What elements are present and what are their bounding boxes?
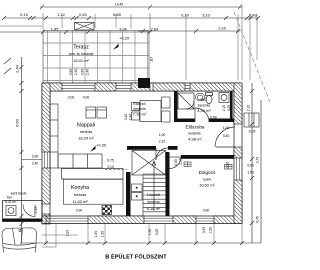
svg-text:10,52 m²: 10,52 m² (199, 183, 215, 188)
svg-text:2,10: 2,10 (107, 165, 114, 169)
svg-text:0,00: 0,00 (68, 96, 75, 100)
svg-text:Lépcső: Lépcső (147, 192, 161, 197)
svg-text:2,10: 2,10 (218, 26, 227, 31)
svg-text:6,65: 6,65 (113, 12, 122, 17)
eloszoba door arc (170, 157, 182, 169)
svg-text:1,80: 1,80 (66, 230, 70, 237)
bath door arc (195, 108, 209, 122)
svg-text:kerámia: kerámia (188, 132, 200, 136)
svg-text:7,16 m²: 7,16 m² (133, 112, 147, 117)
svg-text:1,50: 1,50 (247, 171, 254, 175)
svg-text:bet: bet (7, 196, 12, 200)
svg-text:1D: 1D (149, 57, 154, 62)
terrace grid (43, 31, 149, 84)
svg-text:0,40: 0,40 (79, 12, 88, 17)
svg-text:WC: WC (201, 97, 208, 102)
armchairs (86, 107, 107, 118)
terrace border (43, 31, 149, 84)
svg-text:1,80: 1,80 (94, 231, 98, 238)
svg-text:2,40: 2,40 (74, 69, 78, 76)
svg-text:kerámia: kerámia (80, 130, 92, 134)
svg-text:0,90: 0,90 (174, 159, 178, 166)
svg-text:0,10: 0,10 (181, 13, 190, 18)
storage door arc (23, 205, 35, 217)
svg-text:kerámia: kerámia (147, 200, 159, 204)
bottom rotated labels (66, 227, 213, 238)
left wall window (45, 152, 48, 168)
svg-text:0,90: 0,90 (210, 116, 217, 120)
svg-text:2,40: 2,40 (129, 114, 133, 121)
svg-text:-0,29: -0,29 (248, 130, 256, 134)
section marker 1D (138, 78, 150, 88)
svg-text:1,50: 1,50 (209, 227, 213, 234)
svg-text:5,16 m²: 5,16 m² (147, 206, 161, 211)
svg-text:0,25: 0,25 (227, 105, 231, 112)
WC duct partition (230, 91, 233, 122)
svg-text:1,00: 1,00 (159, 133, 166, 137)
storage room outside left (3, 201, 43, 222)
sofa (58, 154, 102, 168)
svg-text:2,40: 2,40 (86, 69, 90, 76)
bottom wall windows (46, 218, 214, 221)
top extension lines (0, 5, 257, 80)
svg-text:0,90: 0,90 (76, 209, 83, 213)
entrance steps outside (244, 113, 259, 127)
svg-text:2,10: 2,10 (222, 105, 226, 112)
left vertical dim line (4, 57, 42, 243)
svg-text:0,90: 0,90 (226, 162, 230, 169)
washing machine (219, 93, 229, 103)
dim line B row1 (2, 16, 260, 20)
vent rect with X on terrace top edge (75, 23, 95, 31)
interior wall bath bottom (174, 119, 195, 123)
washbasin WC (195, 93, 204, 101)
svg-text:1,50: 1,50 (148, 229, 152, 236)
stair landing (132, 151, 166, 176)
stair treads (143, 174, 166, 216)
Étkező table (140, 101, 161, 122)
svg-text:2,10: 2,10 (159, 140, 166, 144)
svg-text:0,00: 0,00 (155, 229, 159, 236)
wall cabinet left (50, 104, 58, 168)
svg-text:2,40: 2,40 (32, 162, 39, 166)
svg-text:0,90: 0,90 (81, 69, 85, 76)
svg-text:kerámia: kerámia (74, 193, 86, 197)
eloszoba-dolgozo wall (181, 155, 234, 159)
dim labels row2 (51, 26, 227, 32)
radiator dolgozo (184, 162, 232, 169)
entrance door arc (215, 127, 235, 147)
right wall window (237, 158, 240, 180)
svg-text:csm. fa. kerámia: csm. fa. kerámia (69, 52, 94, 56)
svg-text:0,90: 0,90 (247, 164, 254, 168)
svg-text:Nappali: Nappali (77, 123, 95, 129)
svg-text:0,40: 0,40 (249, 13, 258, 18)
top wall outline (42, 83, 242, 91)
svg-text:15,01 m²: 15,01 m² (73, 58, 89, 63)
island / sofa front (62, 169, 124, 180)
svg-text:l.park: l.park (203, 178, 212, 182)
terrace rotated window dims (69, 69, 90, 76)
top wall window glazing lines (62, 86, 190, 89)
right vertical dim line (250, 83, 261, 243)
svg-text:3,40: 3,40 (223, 134, 230, 138)
interior wall bath left (174, 91, 178, 122)
nappali rotated dims near 1D (124, 114, 133, 121)
svg-text:Dolgozó: Dolgozó (199, 170, 216, 175)
overall dim line A top (40, 5, 242, 10)
svg-text:3,70: 3,70 (256, 157, 260, 164)
svg-text:Terasz: Terasz (73, 45, 89, 51)
svg-text:0,90: 0,90 (202, 227, 206, 234)
svg-text:0,90: 0,90 (32, 155, 39, 159)
svg-text:Étkező: Étkező (133, 101, 146, 106)
svg-text:11,62 m²: 11,62 m² (72, 199, 88, 204)
svg-text:4,98 m²: 4,98 m² (188, 137, 202, 142)
dim line C row2 right (138, 29, 240, 33)
kamra fridge boxes (132, 184, 143, 200)
dashed floor boundary (105, 169, 127, 171)
svg-text:-0,45: -0,45 (256, 216, 260, 224)
shower (178, 93, 194, 109)
chimney checkered (102, 206, 112, 215)
svg-text:0,40: 0,40 (124, 114, 128, 121)
svg-text:1,50: 1,50 (101, 231, 105, 238)
svg-text:14,45: 14,45 (115, 3, 123, 7)
svg-text:3,10: 3,10 (202, 13, 211, 18)
right wall (234, 83, 242, 224)
stair-dolgozo wall (166, 152, 170, 216)
svg-text:2,10: 2,10 (179, 158, 183, 165)
diagonal dashed boundary top right (234, 12, 270, 102)
svg-text:B ÉPÜLET FÖLDSZINT: B ÉPÜLET FÖLDSZINT (105, 253, 167, 261)
toilet (206, 93, 213, 104)
etkezo door arc (156, 148, 168, 160)
svg-text:18,24 m²: 18,24 m² (78, 135, 94, 140)
bottom wall (42, 216, 242, 224)
svg-text:6,60: 6,60 (15, 118, 20, 127)
Étkező chairs (132, 97, 171, 122)
svg-text:kerámia: kerámia (198, 104, 210, 108)
svg-text:2,64: 2,64 (151, 27, 160, 32)
svg-text:2,40: 2,40 (15, 64, 20, 73)
left wall (42, 83, 50, 224)
svg-text:2,10: 2,10 (34, 207, 38, 214)
top wall hatch segments (42, 83, 238, 91)
svg-text:1,00: 1,00 (223, 126, 230, 130)
car (2, 228, 37, 253)
dim labels row1 (20, 12, 258, 18)
svg-text:0,90: 0,90 (69, 69, 73, 76)
svg-text:kerti tároló: kerti tároló (11, 192, 27, 196)
stair arrow (152, 161, 156, 211)
konyha-kamra wall (126, 172, 131, 216)
dim line C row2 left (0, 30, 152, 34)
svg-text:2,10: 2,10 (247, 105, 251, 112)
svg-text:Konyha: Konyha (71, 185, 89, 191)
svg-text:kerámia: kerámia (133, 107, 145, 111)
bottom extension lines and dims (42, 224, 242, 247)
svg-text:1,12: 1,12 (57, 12, 66, 17)
svg-text:+0,29: +0,29 (119, 36, 130, 41)
svg-text:0,90: 0,90 (203, 209, 210, 213)
svg-text:0,75: 0,75 (107, 159, 114, 163)
svg-text:0,00: 0,00 (83, 96, 90, 100)
svg-text:4,34 m²: 4,34 m² (197, 108, 211, 113)
svg-text:0,15: 0,15 (20, 12, 29, 17)
svg-text:Előszoba: Előszoba (186, 125, 205, 130)
storage washbasin (6, 206, 16, 216)
Étkező bottom wall (127, 146, 156, 150)
svg-text:+0,30: +0,30 (96, 143, 107, 148)
svg-text:5,01 m²: 5,01 m² (5, 200, 17, 204)
